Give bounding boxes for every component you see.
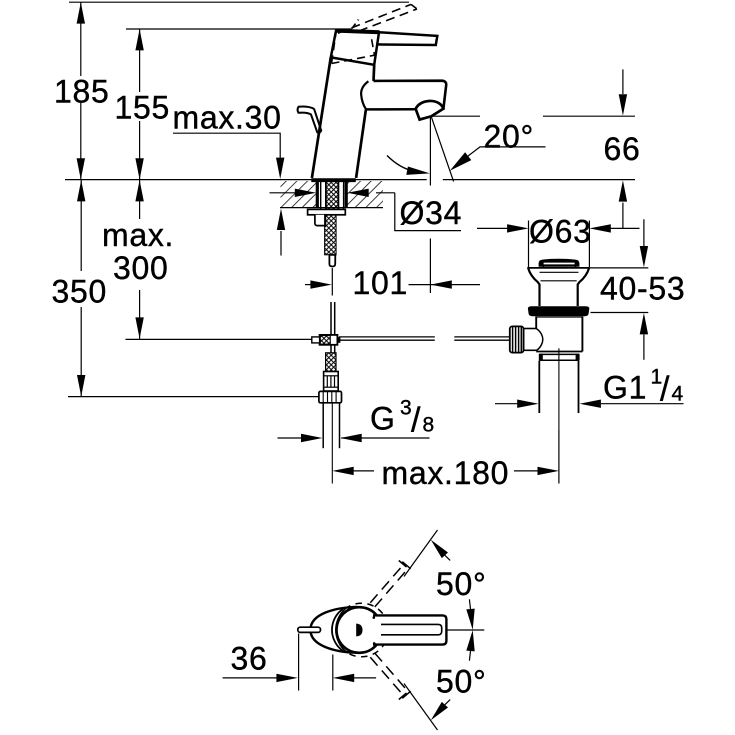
svg-text:155: 155: [115, 90, 171, 126]
extension below counter: [280, 231, 282, 256]
fitting right nub: [337, 337, 340, 343]
washer under counter: [308, 209, 346, 214]
dimension line 155: [139, 29, 141, 92]
dashed cartridge outline rotated: [332, 30, 375, 64]
body right edge: [581, 316, 583, 351]
hole left edge thick: [316, 181, 319, 208]
svg-text:40-53: 40-53: [600, 271, 685, 307]
svg-text:max.30: max.30: [173, 100, 282, 136]
body right edge above spout: [372, 65, 375, 81]
body top line: [536, 316, 583, 318]
spout top and tip: [374, 81, 447, 109]
top reference line at flange: [590, 267, 649, 269]
fitting left tab: [312, 337, 320, 343]
dashed handle raised: line B: [359, 9, 417, 31]
bell flange right side: [578, 268, 589, 306]
hatching left of hole: [281, 181, 318, 207]
centerline below tip: [331, 268, 333, 296]
pop-up rod joint fitting: [320, 335, 338, 345]
plug neck: [542, 266, 544, 268]
66 top reference line: [432, 115, 481, 117]
arrow 101 left-pointing at outlet CL: [430, 280, 451, 288]
angular arrow on upper boundary: [431, 540, 450, 561]
dashed swivel circle: [335, 603, 389, 657]
mounting nut: [315, 215, 326, 226]
pop-up vertical rod: [330, 302, 332, 334]
handle lever horizontal: [377, 32, 437, 45]
body right edge below spout: [356, 109, 366, 177]
angular arrow on lower boundary: [431, 700, 450, 721]
dim Ø63: [477, 221, 640, 268]
arrow G1 1/4 left pointing right: [517, 400, 538, 408]
arrow G1 1/4 right pointing left: [580, 400, 601, 408]
66 top reference line right of label: [543, 115, 635, 117]
arrow max.300 down: [135, 317, 143, 338]
svg-text:101: 101: [353, 265, 409, 301]
spray 20 deg slant line: [431, 117, 453, 182]
label G 3/8: [370, 397, 435, 440]
arrow 350 up: [77, 180, 85, 201]
lever inner slot: [381, 624, 442, 634]
reference line 350 bottom: [68, 396, 319, 398]
side outlet left edge: [523, 329, 525, 351]
arrow 40-53 down: [640, 246, 648, 267]
arrow max.300 up: [135, 180, 143, 201]
flange inner line 2: [541, 280, 577, 282]
svg-text:50°: 50°: [436, 566, 487, 602]
dim 40-53: [590, 219, 649, 359]
arrowhead 20deg leader: [450, 152, 472, 171]
hose connector: [324, 372, 339, 392]
pop-up rod horizontal left segment: [339, 336, 435, 338]
arrow 155 up: [135, 29, 143, 50]
dim G3/8: [278, 437, 430, 439]
arrow 66 up at counter line: [619, 180, 627, 201]
dim G1 1/4: [495, 403, 684, 405]
svg-text:300: 300: [113, 250, 169, 286]
reference line top (185): [69, 1, 409, 3]
lever top view: [373, 615, 446, 644]
braided hose segment: [326, 353, 336, 372]
arrow 185 down: [77, 158, 85, 179]
G3/8 connection nut: [319, 391, 342, 402]
arrow Ø34 right: [347, 189, 368, 197]
dashed handle raised: tip cap: [411, 4, 417, 9]
spray vertical line: [429, 117, 431, 186]
dimension line 350: [80, 180, 82, 271]
extension lines: [528, 221, 530, 268]
faucet cartridge housing: [331, 31, 379, 65]
temperature pin: [298, 627, 321, 632]
dashed handle butt cap: [352, 20, 359, 29]
pop-up rod knob at rear: [298, 107, 322, 133]
side outlet bottom: [524, 349, 537, 351]
arrow 350 down: [77, 375, 85, 396]
dim Ø34: [270, 193, 462, 231]
dimension line 185: [80, 2, 82, 76]
bell flange left side: [528, 268, 539, 306]
svg-text:20°: 20°: [484, 119, 535, 155]
arrow max.30 down at counter top: [276, 158, 284, 179]
countertop surface line: [65, 179, 427, 181]
arrow 36 pointing left: [333, 674, 354, 682]
dim 101: [305, 239, 480, 294]
aerator outlet wedge: [416, 101, 444, 120]
angular arrow pair at centerline upper: [466, 599, 474, 630]
svg-text:max.180: max.180: [382, 455, 510, 491]
threaded shank through counter: [326, 181, 338, 210]
faucet body left edge: [312, 57, 331, 178]
arrowhead swivel arc: [406, 167, 430, 175]
spout underside: [366, 108, 416, 111]
knurled adjuster knob: [510, 326, 524, 352]
handle body top view: [310, 607, 357, 653]
svg-text:/: /: [660, 371, 670, 409]
cartridge top edge thick: [336, 31, 380, 33]
arrow max.180 right: [538, 467, 559, 475]
arrow 101 right-pointing at faucet CL: [310, 280, 331, 288]
faucet base on counter: [311, 178, 356, 182]
coupling ring: [539, 353, 579, 355]
body fillet arc behind spout: [361, 81, 368, 109]
arrow max.30 up at counter bottom: [277, 209, 285, 230]
drain centerline: [558, 348, 560, 430]
pop-up rod horizontal right segment: [454, 336, 510, 338]
rod tip: [329, 255, 335, 267]
arrow 66 down at spout line: [619, 94, 627, 115]
body cap arc inner: [336, 608, 346, 651]
dot lower: [373, 642, 376, 645]
pop-up plug cap: [539, 260, 578, 267]
leader 20deg: [460, 147, 546, 162]
dim max.180: [353, 430, 559, 484]
threaded rod below counter: [325, 215, 337, 255]
arrow Ø34 left: [295, 189, 316, 197]
handle knob circle: [337, 607, 383, 653]
reference line max.300 bottom (pop-up rod level): [126, 338, 312, 340]
body cap arc outer: [332, 609, 343, 651]
pivot mark: [356, 624, 362, 637]
body-outlet junction arc: [536, 329, 542, 351]
arrow 185 up: [77, 2, 85, 23]
dot upper: [373, 616, 376, 619]
bottom reference line at o-ring: [591, 312, 649, 314]
arrow G3/8 right: [340, 434, 361, 442]
svg-text:4: 4: [672, 383, 684, 406]
supply pipe tails: [322, 403, 324, 448]
countertop bottom line: [280, 207, 383, 209]
svg-text:350: 350: [52, 274, 108, 310]
countertop surface line right of spray: [443, 179, 635, 181]
50deg boundary line upper: [404, 530, 438, 577]
svg-text:66: 66: [604, 131, 641, 167]
svg-text:8: 8: [423, 414, 435, 437]
handle axis centerline: [447, 629, 485, 631]
svg-text:G1: G1: [603, 370, 647, 406]
svg-text:Ø34: Ø34: [400, 195, 463, 231]
side outlet top: [524, 328, 537, 330]
body bottom edge: [536, 351, 582, 353]
arrow Ø63 pointing left: [589, 224, 610, 232]
flange inner line 1: [540, 271, 579, 273]
angular arrow pair at centerline lower: [466, 630, 474, 661]
arrow max.180 left: [332, 467, 353, 475]
hatching right of hole: [347, 181, 383, 207]
svg-text:Ø63: Ø63: [529, 214, 592, 250]
arrow Ø63 pointing right: [507, 224, 528, 232]
dim 66: [622, 69, 624, 228]
hole right edge thick: [345, 181, 348, 208]
svg-text:50°: 50°: [436, 664, 487, 700]
50deg boundary line lower: [404, 684, 438, 731]
faucet centerline lower: [331, 403, 333, 484]
reference line (155): [126, 28, 352, 30]
dimension line max.300: [139, 180, 141, 219]
dashed handle raised: line A: [338, 4, 411, 33]
arrow G3/8 left: [301, 434, 322, 442]
50deg dashed lever lower: [370, 653, 411, 699]
arrow 40-53 up: [640, 313, 648, 334]
body left edge: [535, 316, 537, 328]
supply hose right lines: [338, 181, 340, 209]
leader max.30: [173, 133, 280, 158]
supply hose left lines: [320, 181, 322, 209]
svg-text:36: 36: [231, 641, 268, 677]
50deg dashed lever upper: [370, 561, 411, 607]
arrow 155 down: [135, 158, 143, 179]
svg-text:/: /: [411, 402, 421, 440]
flange top edge: [527, 267, 590, 269]
svg-text:max.: max.: [102, 217, 174, 253]
label G1 1/4: [603, 366, 684, 409]
rod stub below fitting: [330, 345, 332, 352]
tailpipe: [538, 361, 540, 413]
swivel arc arrow: [387, 156, 415, 172]
svg-text:G: G: [370, 401, 396, 437]
svg-text:185: 185: [54, 74, 110, 110]
o-ring seal black band: [528, 306, 589, 316]
arrow 36 pointing right: [276, 674, 297, 682]
